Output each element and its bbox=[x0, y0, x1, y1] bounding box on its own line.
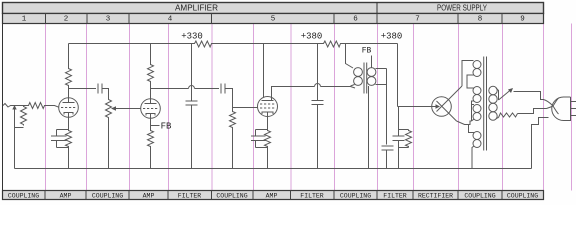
wire V2 plate to hop bbox=[151, 88, 189, 90]
wire R1 bottom to wiper arm bbox=[15, 127, 24, 129]
resistor R9 (V3 grid leak) bbox=[230, 111, 236, 129]
svg-text:COUPLING: COUPLING bbox=[340, 193, 371, 200]
resistor R12 element bbox=[406, 130, 412, 148]
tube V1 cathode bbox=[64, 113, 73, 115]
resistor R6 (V2 plate load) bbox=[148, 64, 154, 83]
tube V1 grid (dashed) bbox=[61, 107, 76, 109]
wire B+ rail bbox=[69, 43, 398, 45]
wire primary top to switch bbox=[496, 88, 499, 100]
transformer T2 HV winding bbox=[473, 61, 481, 69]
wire B+ feed from rectifier bbox=[398, 44, 432, 107]
tube V2 plate bbox=[145, 99, 157, 104]
wire rail to T1 primary top bbox=[346, 44, 354, 69]
plug cord upper curve bbox=[514, 92, 554, 107]
svg-text:+380: +380 bbox=[381, 32, 403, 42]
potentiometer R1 wiper arm bbox=[14, 108, 16, 169]
wire T1 secondary FB tap bbox=[371, 56, 373, 68]
wire T2 winding 4 top lead bbox=[469, 125, 475, 133]
svg-text:COUPLING: COUPLING bbox=[216, 193, 247, 200]
column separator grid (zone lines) bbox=[46, 24, 572, 191]
capacitor C2 (V1 cathode bypass) bbox=[51, 130, 69, 148]
transformer T2 filament winding bbox=[473, 87, 481, 95]
wire hop to C3 bbox=[195, 88, 220, 90]
tube V4 cathode arrow bbox=[432, 106, 438, 108]
plug P1 prong 3 bbox=[571, 115, 576, 117]
wire T1 secondary bottom lead bbox=[376, 69, 387, 145]
tube V2 cathode bbox=[146, 114, 155, 116]
svg-text:AMP: AMP bbox=[143, 193, 155, 200]
svg-text:5: 5 bbox=[271, 16, 276, 24]
wire grid node to R9 bbox=[232, 108, 234, 111]
tube V3 cathode bbox=[262, 112, 273, 114]
wire C1 to R5 bbox=[102, 89, 109, 99]
header table bbox=[3, 2, 544, 24]
wire HV top lead bbox=[462, 61, 474, 87]
wire ground bus riser to AC line bbox=[532, 118, 549, 169]
svg-text:4: 4 bbox=[168, 16, 173, 24]
resistor R2 (grid stopper) bbox=[28, 103, 46, 109]
resistor R8 (B+ dropping, rail) bbox=[194, 41, 213, 47]
svg-text:+380: +380 bbox=[301, 32, 323, 42]
wire T2 winding bracket 2 bbox=[472, 101, 475, 121]
tube V4 plate diagonal upper bbox=[437, 86, 463, 112]
transformer T2 primary winding bbox=[489, 86, 497, 94]
wire T1 primary bottom to plate wire bbox=[351, 85, 355, 87]
wire hop to output transformer primary bbox=[321, 87, 356, 89]
tube V3 (output pentode) envelope bbox=[258, 97, 278, 117]
wire T2 winding 4 to ground bus bbox=[472, 146, 474, 169]
tube V3 grid 2 (dashed) bbox=[260, 107, 275, 109]
svg-text:COUPLING: COUPLING bbox=[92, 193, 123, 200]
plug P1 prong 2 bbox=[571, 108, 576, 110]
svg-text:FB: FB bbox=[161, 122, 172, 132]
svg-text:FB: FB bbox=[362, 47, 372, 56]
wire C5 to ground bus bbox=[317, 105, 319, 169]
wire C7 to ground bus bbox=[386, 150, 388, 169]
resistor R4 (V1 cathode bias) bbox=[66, 130, 72, 148]
svg-text:FILTER: FILTER bbox=[178, 193, 202, 200]
svg-text:9: 9 bbox=[520, 16, 525, 24]
transformer T1 primary winding bbox=[354, 68, 363, 77]
svg-text:AMP: AMP bbox=[266, 193, 278, 200]
capacitor C5 (B+ filter) bbox=[312, 101, 324, 105]
resistor R12 (bleeder) bbox=[399, 130, 409, 148]
capacitor C7 (FB return) bbox=[382, 146, 394, 150]
wire C3 to V3 grid node bbox=[225, 89, 258, 108]
wire R2 to V1 grid bbox=[46, 106, 60, 108]
wire B+ node to RC filter bbox=[398, 107, 400, 136]
wire T1 primary return to ground bus bbox=[368, 86, 370, 169]
labels bbox=[161, 32, 403, 132]
resistor R10 (V3 cathode bias) bbox=[265, 130, 271, 148]
tube V2 grid (dashed) bbox=[143, 108, 158, 110]
capacitor C3 (coupling) bbox=[221, 84, 225, 94]
wire C4 to ground bus bbox=[191, 105, 193, 169]
wire rail branch to C5 bbox=[317, 44, 319, 101]
wire rail corner to R3 bbox=[68, 44, 70, 68]
wire R5 to ground bus bbox=[108, 119, 110, 169]
plug P1 body bbox=[552, 97, 571, 121]
svg-text:1: 1 bbox=[22, 16, 27, 24]
wire R5 wiper to V2 grid bbox=[115, 108, 141, 110]
transformer T1 secondary winding bbox=[367, 68, 376, 77]
wire V1 cathode to ground bus bbox=[68, 148, 70, 169]
transformer T1 core bbox=[364, 63, 367, 94]
resistor R1 (input pot element) bbox=[21, 106, 27, 126]
svg-text:FILTER: FILTER bbox=[300, 193, 324, 200]
wire V2 cathode to ground bus bbox=[150, 148, 152, 169]
tube V3 plate bbox=[262, 97, 274, 100]
svg-text:8: 8 bbox=[478, 16, 483, 24]
wire V2 cathode lead bbox=[150, 114, 152, 130]
potentiometer R1 wiper arrowhead bbox=[12, 105, 16, 110]
wire input line from left border bbox=[3, 104, 28, 108]
wire hop over filter 2 branch bbox=[315, 84, 321, 87]
wire RC filter to ground bus bbox=[398, 141, 400, 169]
tube V2 (triode) envelope bbox=[141, 99, 161, 119]
wire R3 to V1 plate node bbox=[68, 87, 70, 98]
svg-text:2: 2 bbox=[64, 16, 69, 24]
wire V3 plate riser bbox=[272, 87, 315, 98]
wire V1 cathode lead bbox=[68, 113, 70, 130]
svg-text:AMP: AMP bbox=[60, 193, 72, 200]
wire R6 to V2 plate node bbox=[150, 83, 152, 99]
plug cord lower curve bbox=[547, 106, 554, 109]
tube V3 grids (dashed) bbox=[260, 103, 275, 105]
resistor R5 (volume pot) bbox=[106, 99, 112, 119]
plug body entry upper bbox=[553, 98, 559, 106]
wire input to R2 bbox=[24, 105, 28, 107]
transformer T2 heater winding bbox=[473, 105, 481, 113]
wire T2 winding bracket 1 bbox=[467, 75, 474, 88]
wire ground bus bbox=[15, 168, 532, 170]
svg-text:7: 7 bbox=[415, 16, 420, 24]
wire R9 to ground bus bbox=[232, 129, 234, 169]
resistor R3 (V1 plate load) bbox=[66, 68, 72, 87]
wire V3 screen to rail bbox=[263, 44, 265, 98]
wire HV lower lead hook bbox=[457, 121, 472, 125]
capacitor C1 (coupling) bbox=[98, 84, 102, 94]
svg-text:COUPLING: COUPLING bbox=[8, 193, 39, 200]
footer table bbox=[3, 191, 544, 200]
plug P1 prong 1 bbox=[571, 101, 576, 103]
svg-text:COUPLING: COUPLING bbox=[464, 193, 495, 200]
svg-text:COUPLING: COUPLING bbox=[507, 193, 538, 200]
wire rail to R6 bbox=[150, 44, 152, 64]
capacitor C8 (supply filter) bbox=[393, 136, 405, 141]
capacitor C4 (B+ filter) bbox=[186, 101, 198, 105]
svg-text:3: 3 bbox=[106, 16, 111, 24]
wire fuse to plug lower bbox=[518, 109, 547, 114]
resistor R7 (V2 cathode bias) bbox=[148, 130, 154, 148]
tube V4 arrowhead bbox=[436, 104, 441, 108]
svg-text:FILTER: FILTER bbox=[383, 193, 407, 200]
plug body entry lower bbox=[553, 106, 559, 114]
tube V4 plate diagonal lower bbox=[437, 101, 457, 121]
wire T2 heater bottom lead bbox=[472, 119, 475, 121]
svg-text:6: 6 bbox=[353, 16, 358, 24]
svg-text:AMPLIFIER: AMPLIFIER bbox=[175, 3, 218, 13]
svg-text:+330: +330 bbox=[181, 32, 203, 42]
tube V4 (rectifier) envelope bbox=[432, 97, 452, 117]
svg-text:RECTIFIER: RECTIFIER bbox=[418, 193, 453, 200]
transformer T2 heater winding 2 bbox=[473, 132, 481, 140]
capacitor C6 (V3 cathode bypass) bbox=[251, 130, 268, 148]
svg-text:POWER SUPPLY: POWER SUPPLY bbox=[437, 3, 487, 13]
wire hop over filter branch bbox=[189, 86, 195, 89]
tube V1 (triode) envelope bbox=[59, 98, 79, 118]
tube V1 plate bbox=[63, 98, 75, 103]
wire V1 plate to C1 bbox=[69, 88, 97, 90]
switch S1 blade bbox=[499, 90, 511, 100]
wire rail branch to C4 bbox=[191, 44, 193, 101]
switch S1 arrowhead bbox=[508, 88, 513, 93]
R5 wiper arrowhead bbox=[111, 106, 116, 110]
resistor R11 (B+ dropping, rail) bbox=[323, 41, 342, 47]
left frame border bbox=[2, 2, 4, 200]
fuse/line resistor squiggle bbox=[499, 113, 518, 118]
wire V3 cathode lead bbox=[267, 112, 269, 130]
transformer T2 core bbox=[484, 57, 487, 151]
wire V3 cathode to ground bus bbox=[267, 148, 269, 169]
wire FB tap tick bbox=[151, 125, 160, 127]
wire primary bottom lead bbox=[496, 118, 499, 119]
